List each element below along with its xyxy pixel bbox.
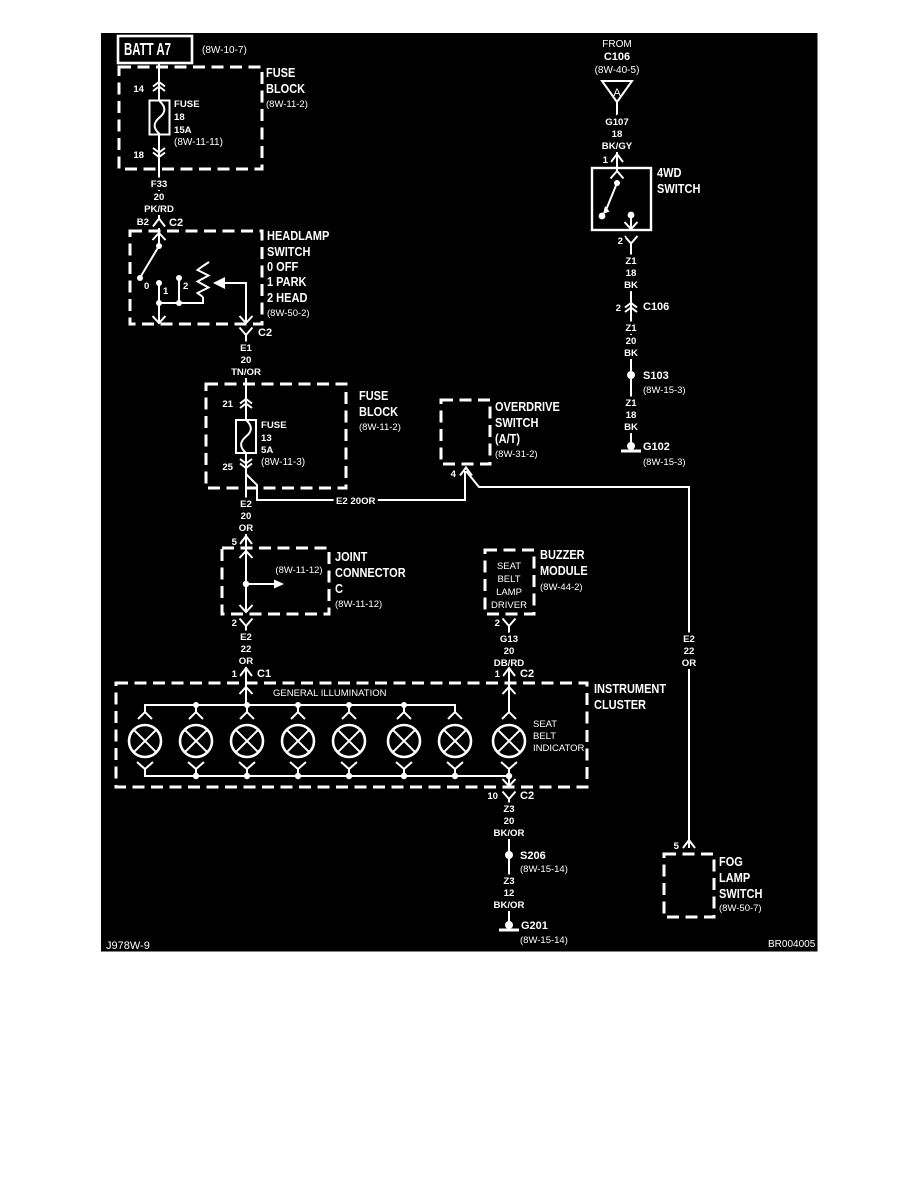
svg-text:Z3: Z3 bbox=[503, 804, 514, 815]
svg-text:0: 0 bbox=[144, 281, 149, 292]
svg-text:BATT A7: BATT A7 bbox=[124, 39, 171, 59]
headlamp switch dashed box bbox=[130, 231, 262, 324]
bottom bus junction dots bbox=[193, 773, 199, 779]
svg-text:Z1: Z1 bbox=[625, 256, 637, 267]
svg-text:(8W-11-2): (8W-11-2) bbox=[359, 422, 401, 433]
lamp 6 bbox=[388, 705, 420, 776]
svg-text:2: 2 bbox=[183, 281, 188, 292]
svg-text:5: 5 bbox=[232, 537, 238, 548]
svg-text:1: 1 bbox=[603, 155, 609, 166]
svg-text:BK/OR: BK/OR bbox=[494, 828, 525, 839]
svg-text:FUSE: FUSE bbox=[266, 66, 295, 80]
svg-text:20: 20 bbox=[154, 192, 165, 203]
joint connector C dashed box bbox=[222, 548, 329, 614]
svg-text:18: 18 bbox=[626, 410, 637, 421]
wire joint connector to cluster C1 bbox=[245, 632, 247, 705]
svg-text:21: 21 bbox=[222, 399, 233, 410]
connector pin 21 double chevron bbox=[240, 399, 252, 408]
svg-text:BK: BK bbox=[624, 348, 638, 359]
svg-text:Z1: Z1 bbox=[625, 323, 637, 334]
svg-text:F33: F33 bbox=[151, 179, 168, 190]
splice S103 bbox=[627, 371, 635, 379]
instrument cluster dashed box bbox=[116, 683, 587, 787]
svg-text:CLUSTER: CLUSTER bbox=[594, 698, 646, 712]
svg-text:C2: C2 bbox=[169, 217, 183, 229]
svg-text:Z3: Z3 bbox=[503, 876, 514, 887]
svg-text:BELT: BELT bbox=[533, 731, 556, 742]
top bus junction dots bbox=[193, 702, 199, 708]
fog lamp switch dashed box bbox=[664, 854, 714, 917]
wire 4WD output bbox=[630, 215, 632, 229]
svg-text:20: 20 bbox=[504, 646, 515, 657]
contact 1 dot bbox=[156, 280, 162, 286]
connector pin 2 4WD (Y) bbox=[625, 236, 638, 250]
svg-text:2 HEAD: 2 HEAD bbox=[267, 291, 307, 305]
svg-text:18: 18 bbox=[133, 150, 144, 161]
svg-text:5A: 5A bbox=[261, 445, 273, 456]
arrowhead out of switch (right) bbox=[240, 316, 253, 323]
svg-text:5: 5 bbox=[674, 841, 680, 852]
svg-text:2: 2 bbox=[616, 303, 621, 314]
wire overdrive to fog lamp switch bbox=[466, 471, 689, 848]
svg-text:C2: C2 bbox=[520, 668, 534, 680]
contact 2 dot bbox=[176, 275, 182, 281]
lamp 3 bbox=[231, 705, 263, 776]
buzzer module dashed box bbox=[485, 550, 534, 614]
svg-text:BELT: BELT bbox=[497, 574, 520, 585]
svg-text:1: 1 bbox=[163, 286, 169, 297]
svg-text:C: C bbox=[335, 582, 343, 596]
connector pin 5 joint half-arrow bbox=[240, 536, 252, 544]
svg-text:LAMP: LAMP bbox=[496, 587, 522, 598]
connector C1 pin 1 half-arrow bbox=[240, 668, 252, 676]
svg-text:HEADLAMP: HEADLAMP bbox=[267, 229, 329, 243]
svg-text:15A: 15A bbox=[174, 125, 192, 136]
wire cluster bottom exit bbox=[508, 776, 510, 786]
seat belt lamp feed bbox=[508, 694, 510, 712]
svg-text:TN/OR: TN/OR bbox=[231, 367, 261, 378]
svg-text:J978W-9: J978W-9 bbox=[106, 940, 150, 952]
svg-text:C2: C2 bbox=[520, 790, 534, 802]
connector pin 4 half-arrow bbox=[460, 468, 472, 476]
svg-text:OVERDRIVE: OVERDRIVE bbox=[495, 400, 560, 414]
wire buzzer to cluster C2 bbox=[508, 632, 510, 712]
4WD contact dot left bbox=[599, 213, 606, 220]
svg-text:18: 18 bbox=[626, 268, 637, 279]
svg-text:(8W-50-2): (8W-50-2) bbox=[267, 308, 310, 319]
svg-text:(8W-15-3): (8W-15-3) bbox=[643, 457, 686, 468]
svg-text:(A/T): (A/T) bbox=[495, 432, 520, 446]
svg-text:SWITCH: SWITCH bbox=[719, 887, 762, 901]
4WD contact dot right bbox=[628, 212, 635, 219]
svg-text:BK: BK bbox=[624, 422, 638, 433]
svg-text:4: 4 bbox=[451, 469, 457, 480]
svg-text:1: 1 bbox=[495, 669, 501, 680]
svg-text:INDICATOR: INDICATOR bbox=[533, 743, 585, 754]
switch common pole dot bbox=[156, 243, 162, 249]
svg-text:22: 22 bbox=[684, 646, 695, 657]
arrowhead out of 4WD switch bbox=[625, 222, 638, 229]
connector pin 2 joint (Y) bbox=[240, 619, 253, 633]
svg-text:1 PARK: 1 PARK bbox=[267, 275, 307, 289]
svg-text:4WD: 4WD bbox=[657, 166, 682, 180]
svg-text:BR004005: BR004005 bbox=[768, 939, 816, 950]
svg-text:E2: E2 bbox=[240, 499, 252, 510]
illumination bottom bus bbox=[145, 769, 509, 776]
svg-text:G107: G107 bbox=[605, 117, 628, 128]
svg-text:E2: E2 bbox=[240, 632, 252, 643]
arrowhead out of joint connector bbox=[240, 605, 253, 612]
svg-text:SEAT: SEAT bbox=[497, 561, 521, 572]
svg-text:12: 12 bbox=[504, 888, 515, 899]
svg-text:0 OFF: 0 OFF bbox=[267, 260, 299, 274]
4WD switch blade bbox=[606, 183, 617, 210]
svg-text:22: 22 bbox=[241, 644, 252, 655]
svg-text:DRIVER: DRIVER bbox=[491, 600, 527, 611]
svg-text:2: 2 bbox=[495, 618, 500, 629]
connector pin 2 buzzer (Y) bbox=[503, 619, 516, 633]
svg-text:SEAT: SEAT bbox=[533, 719, 557, 730]
4WD pole dot bbox=[614, 180, 620, 186]
fuse block 2 dashed box bbox=[206, 384, 346, 488]
svg-text:SWITCH: SWITCH bbox=[267, 245, 310, 259]
svg-text:20: 20 bbox=[626, 336, 637, 347]
svg-text:BK/OR: BK/OR bbox=[494, 900, 525, 911]
svg-text:JOINT: JOINT bbox=[335, 550, 368, 564]
lamp 7 bbox=[439, 712, 471, 776]
svg-text:14: 14 bbox=[133, 84, 144, 95]
arrowhead into joint connector bbox=[240, 551, 253, 558]
svg-text:S206: S206 bbox=[520, 850, 546, 862]
svg-text:Z1: Z1 bbox=[625, 398, 637, 409]
svg-text:C106: C106 bbox=[604, 51, 630, 63]
svg-text:E2: E2 bbox=[683, 634, 695, 645]
svg-text:1: 1 bbox=[232, 669, 238, 680]
connector pin 5 fog lamp half-arrow bbox=[683, 840, 695, 848]
connector pin 1 4WD half-arrow bbox=[611, 154, 623, 162]
rheostat wiper arrow bbox=[213, 277, 225, 289]
svg-text:LAMP: LAMP bbox=[719, 871, 750, 885]
lamp 5 bbox=[333, 705, 365, 776]
wire fuse 13 output bbox=[245, 453, 247, 537]
svg-text:(8W-15-3): (8W-15-3) bbox=[643, 385, 686, 396]
svg-text:BK: BK bbox=[624, 280, 638, 291]
svg-text:(8W-11-2): (8W-11-2) bbox=[266, 99, 308, 110]
svg-text:INSTRUMENT: INSTRUMENT bbox=[594, 682, 666, 696]
arrowhead into 4WD switch bbox=[611, 171, 624, 179]
svg-text:2: 2 bbox=[618, 236, 623, 247]
svg-text:B2: B2 bbox=[137, 217, 149, 228]
lamp 4 bbox=[282, 705, 314, 776]
illumination top bus bbox=[145, 705, 455, 712]
svg-text:10: 10 bbox=[487, 791, 498, 802]
svg-text:G102: G102 bbox=[643, 441, 670, 453]
arrowhead into cluster at C1 bbox=[240, 687, 253, 694]
svg-text:MODULE: MODULE bbox=[540, 564, 588, 578]
wire headlamp switch to fuse 13 bbox=[245, 341, 247, 420]
junction dot contact1 bus bbox=[156, 300, 162, 306]
arrowhead out of cluster bbox=[503, 779, 516, 786]
arrowhead out of switch (left) bbox=[153, 316, 166, 323]
wire contact 1 down bbox=[158, 283, 160, 322]
wire BATT A7 to fuse 18 bbox=[158, 63, 160, 101]
svg-text:(8W-15-14): (8W-15-14) bbox=[520, 864, 568, 875]
wire wiper to output bbox=[225, 283, 246, 322]
fuse F13 element bbox=[236, 420, 256, 453]
wire C106 feed to 4WD switch bbox=[616, 102, 618, 171]
connector pin 25 double chevron bbox=[240, 459, 252, 468]
svg-text:G201: G201 bbox=[521, 920, 548, 932]
feed triangle A bbox=[602, 81, 632, 102]
svg-text:OR: OR bbox=[239, 523, 253, 534]
svg-text:FUSE: FUSE bbox=[359, 389, 388, 403]
svg-text:OR: OR bbox=[239, 656, 253, 667]
svg-text:E1: E1 bbox=[240, 343, 252, 354]
svg-text:PK/RD: PK/RD bbox=[144, 204, 174, 215]
connector pin 18 double chevron bbox=[153, 148, 165, 157]
fuse block 1 dashed box bbox=[119, 67, 262, 169]
svg-text:(8W-15-14): (8W-15-14) bbox=[520, 935, 568, 946]
svg-text:(8W-50-7): (8W-50-7) bbox=[719, 903, 762, 914]
svg-text:(8W-44-2): (8W-44-2) bbox=[540, 582, 583, 593]
background black panel bbox=[101, 33, 818, 952]
svg-text:(8W-40-5): (8W-40-5) bbox=[595, 65, 640, 76]
svg-text:(8W-31-2): (8W-31-2) bbox=[495, 449, 538, 460]
svg-text:(8W-11-12): (8W-11-12) bbox=[275, 565, 322, 576]
svg-text:25: 25 bbox=[222, 462, 233, 473]
connector C2 pin 10 (Y) bbox=[503, 792, 516, 806]
svg-text:(8W-11-11): (8W-11-11) bbox=[174, 137, 223, 148]
svg-text:GENERAL ILLUMINATION: GENERAL ILLUMINATION bbox=[273, 688, 387, 699]
svg-text:13: 13 bbox=[261, 433, 272, 444]
svg-text:BK/GY: BK/GY bbox=[602, 141, 633, 152]
fuse F18 element bbox=[150, 101, 170, 135]
wire bus to rheostat bbox=[159, 297, 203, 303]
rheostat zigzag bbox=[198, 262, 210, 297]
svg-text:(8W-11-3): (8W-11-3) bbox=[261, 457, 305, 468]
svg-text:OR: OR bbox=[682, 658, 696, 669]
connector pin 14 double chevron bbox=[153, 82, 165, 91]
svg-text:18: 18 bbox=[612, 129, 623, 140]
svg-text:2: 2 bbox=[232, 618, 237, 629]
ground G102 bbox=[627, 442, 635, 450]
joint connector junction dot bbox=[243, 581, 249, 587]
svg-text:FUSE: FUSE bbox=[174, 99, 200, 110]
svg-text:20: 20 bbox=[241, 355, 252, 366]
svg-text:G13: G13 bbox=[500, 634, 518, 645]
contact 0 dot bbox=[137, 275, 143, 281]
connector C106 pin 2 double chevron bbox=[625, 303, 637, 312]
lamp 2 bbox=[180, 705, 212, 776]
svg-text:C106: C106 bbox=[643, 301, 669, 313]
arrowhead into cluster at C2 bbox=[503, 687, 516, 694]
svg-text:BLOCK: BLOCK bbox=[266, 82, 305, 96]
4WD switch box bbox=[592, 168, 651, 230]
wire fuse 18 output bbox=[158, 134, 160, 218]
connector C2 below headlamp switch (Y) bbox=[240, 328, 253, 342]
seat belt indicator lamp bbox=[493, 712, 525, 776]
arrowhead into switch bbox=[153, 233, 166, 240]
svg-text:(8W-10-7): (8W-10-7) bbox=[202, 45, 247, 56]
svg-text:20: 20 bbox=[241, 511, 252, 522]
svg-text:20: 20 bbox=[504, 816, 515, 827]
svg-text:CONNECTOR: CONNECTOR bbox=[335, 566, 406, 580]
wire contact 2 down bbox=[178, 278, 180, 303]
svg-text:A: A bbox=[613, 87, 621, 99]
svg-text:SWITCH: SWITCH bbox=[495, 416, 538, 430]
svg-text:FOG: FOG bbox=[719, 855, 743, 869]
junction dot contact2 bus bbox=[176, 300, 182, 306]
wire cluster to G201 bbox=[508, 805, 510, 925]
svg-text:BUZZER: BUZZER bbox=[540, 548, 585, 562]
switch wiper blade bbox=[141, 246, 159, 276]
joint connector wire in bbox=[245, 537, 247, 612]
svg-text:E2 20OR: E2 20OR bbox=[336, 496, 376, 507]
svg-text:FUSE: FUSE bbox=[261, 420, 287, 431]
overdrive switch dashed box bbox=[441, 400, 490, 464]
ground G201 bbox=[505, 921, 513, 929]
lamp 1 bbox=[129, 712, 161, 776]
joint connector branch arrow bbox=[246, 583, 276, 585]
branch to overdrive switch bbox=[246, 471, 465, 500]
svg-text:C1: C1 bbox=[257, 668, 271, 680]
connector C2 pin B2 half-arrow bbox=[153, 219, 165, 227]
splice S206 bbox=[505, 851, 513, 859]
wire into headlamp switch bbox=[158, 228, 160, 246]
svg-text:SWITCH: SWITCH bbox=[657, 182, 700, 196]
svg-text:S103: S103 bbox=[643, 370, 669, 382]
svg-text:C2: C2 bbox=[258, 327, 272, 339]
wire 4WD to G102 bbox=[630, 250, 632, 446]
battery feed box BATT A7 bbox=[118, 36, 192, 63]
svg-text:18: 18 bbox=[174, 112, 185, 123]
svg-text:(8W-11-12): (8W-11-12) bbox=[335, 599, 382, 610]
connector C2 pin 1 half-arrow bbox=[503, 668, 515, 676]
svg-text:BLOCK: BLOCK bbox=[359, 405, 398, 419]
svg-text:FROM: FROM bbox=[602, 39, 631, 50]
